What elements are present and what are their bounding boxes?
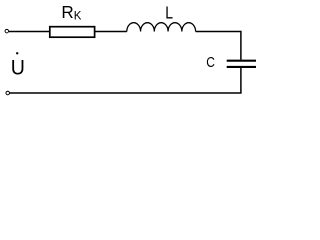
- wire: [240, 68, 242, 93]
- svg-text:L: L: [165, 3, 173, 23]
- wire: [240, 31, 242, 60]
- svg-text:C: C: [206, 54, 215, 71]
- label U (phasor): [11, 52, 25, 80]
- svg-text:K: K: [74, 11, 82, 23]
- inductor L: [127, 23, 196, 32]
- wire: [9, 92, 241, 94]
- svg-text:U: U: [11, 56, 25, 80]
- capacitor C: [227, 61, 256, 67]
- resistor RK: [50, 27, 95, 38]
- terminal (bottom-left input): [6, 91, 10, 95]
- svg-text:R: R: [61, 1, 73, 22]
- wire: [196, 31, 241, 33]
- label RK: [61, 1, 81, 22]
- wire: [95, 31, 127, 33]
- terminal (top-left input): [5, 29, 9, 32]
- wire: [9, 31, 50, 33]
